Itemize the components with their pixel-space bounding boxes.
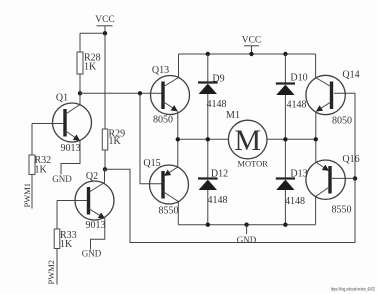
resistor R28: [77, 33, 101, 93]
svg-text:Q15: Q15: [143, 158, 160, 169]
svg-text:9013: 9013: [86, 220, 106, 231]
wire Q16 base stub: [332, 177, 355, 179]
svg-text:Q16: Q16: [342, 154, 359, 165]
svg-text:8050: 8050: [153, 114, 173, 125]
transistor Q15: [143, 158, 188, 217]
node D13 bottom: [283, 223, 287, 227]
transistor Q14: [306, 54, 360, 127]
wire Q13 emitter down: [177, 111, 179, 139]
node VCC left junction: [103, 31, 107, 35]
motor M1: [226, 110, 268, 169]
svg-text:VCC: VCC: [242, 36, 262, 46]
transistor Q1: [32, 93, 92, 155]
wire Q2 emitter to ground: [91, 219, 105, 250]
svg-text:Q14: Q14: [342, 70, 359, 81]
node D9 top: [206, 52, 210, 56]
wire top rail: [179, 53, 316, 55]
svg-text:M1: M1: [226, 110, 240, 121]
wire down to Q15 base: [140, 93, 162, 184]
svg-text:Q1: Q1: [56, 93, 68, 104]
ground GND (bridge): [246, 225, 248, 234]
node branch to Q15 base: [138, 91, 142, 95]
VCC left symbol: [95, 15, 115, 33]
diode D13: [276, 139, 308, 224]
node Q2 collector junction: [103, 167, 107, 171]
svg-text:4148: 4148: [287, 100, 307, 111]
node D9/D12 junction: [206, 137, 210, 141]
wire VCC rail down to R29: [104, 33, 106, 129]
svg-text:VCC: VCC: [95, 15, 115, 25]
svg-text:GND: GND: [82, 249, 102, 259]
resistor R32: [29, 124, 51, 209]
svg-text:4148: 4148: [285, 196, 305, 207]
svg-text:8050: 8050: [332, 116, 352, 127]
svg-text:D10: D10: [290, 73, 307, 84]
svg-text:1K: 1K: [35, 165, 48, 176]
node Q14/Q16 junction: [314, 137, 318, 141]
wire Q2 collector to Q14/Q16 bases: [105, 93, 355, 242]
resistor R29: [102, 129, 125, 170]
svg-text:D12: D12: [211, 169, 228, 180]
svg-text:D13: D13: [290, 169, 307, 180]
svg-text:1K: 1K: [84, 62, 97, 73]
svg-text:Q2: Q2: [86, 171, 98, 182]
diode D10: [276, 54, 308, 139]
wire mid rail right: [267, 138, 316, 140]
node D12 bottom: [206, 223, 210, 227]
svg-text:M: M: [234, 124, 261, 157]
node Q13/Q15 junction: [176, 137, 180, 141]
wire Q15 emitter up: [177, 139, 179, 167]
svg-text:4148: 4148: [207, 99, 227, 110]
diode D9: [198, 54, 227, 139]
svg-text:9013: 9013: [61, 143, 81, 154]
node Q16 base junction: [353, 176, 357, 180]
transistor Q2: [57, 169, 114, 231]
node D10 top: [283, 52, 287, 56]
svg-text:Q13: Q13: [152, 65, 169, 76]
svg-text:MOTOR: MOTOR: [237, 159, 268, 169]
svg-text:8550: 8550: [332, 205, 352, 216]
svg-text:GND: GND: [237, 235, 257, 245]
svg-text:D9: D9: [212, 74, 224, 85]
svg-text:PWM2: PWM2: [46, 260, 56, 285]
wire Q14 emitter down: [315, 111, 317, 139]
transistor Q16: [306, 154, 360, 216]
wire VCC to R28 top: [80, 32, 105, 34]
resistor R33: [54, 201, 76, 285]
node VCC rail: [249, 52, 253, 56]
svg-text:GND: GND: [52, 174, 72, 184]
wire Q16 emitter up: [315, 139, 317, 162]
wire Q1 emitter to ground: [61, 141, 80, 175]
wire Q16 collector down: [315, 197, 317, 225]
wire mid rail left: [178, 138, 229, 140]
svg-text:https://blog.csdn.net/weixin_4: https://blog.csdn.net/weixin_42432: [331, 288, 375, 293]
svg-text:8550: 8550: [159, 206, 179, 217]
svg-text:PWM1: PWM1: [22, 183, 32, 208]
transistor Q13: [151, 54, 190, 125]
VCC right symbol: [242, 36, 262, 55]
node GND tap: [244, 223, 248, 227]
svg-text:1K: 1K: [60, 239, 73, 250]
wire Q15 collector down: [177, 202, 179, 225]
svg-text:4148: 4148: [208, 195, 228, 206]
wire bottom rail: [178, 224, 315, 226]
svg-text:1K: 1K: [109, 136, 122, 147]
node Q1 collector junction: [78, 91, 82, 95]
wire Q1 collector to Q13 base: [80, 92, 162, 94]
node D10/D13 junction: [283, 137, 287, 141]
diode D12: [198, 139, 228, 224]
